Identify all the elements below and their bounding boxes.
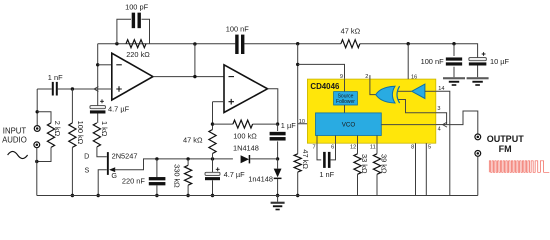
resistor 220 k&#937; (U1 feedback) <box>126 40 146 48</box>
wire U1 minus lead <box>98 64 112 66</box>
node U1 inverting input <box>96 63 99 66</box>
sine symbol <box>8 151 28 158</box>
wire 2k stub <box>37 112 51 123</box>
plus mark 4.7uF #2 <box>216 167 220 171</box>
node 100nF decoupling branch <box>452 42 455 45</box>
capacitor 1 nF (pins 7-6) <box>323 152 330 168</box>
resistor 47 k&#937; (U2 + leg) <box>209 130 216 154</box>
node U2 + feedback node <box>211 122 214 125</box>
wire top feedback/supply rail <box>98 44 478 58</box>
svg-text:VCO: VCO <box>342 122 356 129</box>
wire input coupling <box>37 88 52 90</box>
inverter triangle (signal amp) <box>412 84 425 98</box>
wire U2 plus lead <box>213 102 225 124</box>
resistor 1 k&#937; <box>93 123 100 147</box>
wire 220nF to ground rail <box>156 185 158 195</box>
label 100 nF <box>226 24 249 33</box>
label FM <box>499 144 512 154</box>
wire source lead <box>98 170 107 196</box>
pin 3 label <box>437 106 440 112</box>
capacitor C 100 pF <box>132 13 141 29</box>
wire bottom ground rail <box>37 195 478 197</box>
junction arrow at U1 + node <box>94 87 98 92</box>
label 39 k&#937; <box>380 154 389 174</box>
ground symbol 100nF <box>443 77 465 86</box>
node 47k ground <box>296 194 299 197</box>
resistor 33 k&#937; <box>354 154 361 175</box>
IC U3 CD4046 body <box>307 79 435 143</box>
label 330 k&#937; <box>172 164 181 188</box>
label G <box>111 171 117 180</box>
node diode junction <box>276 157 279 160</box>
wire diode to junction <box>250 158 277 160</box>
label 47 k&#937; <box>341 27 361 36</box>
label 1 uF <box>281 121 296 130</box>
node VCO-input branch <box>296 42 299 45</box>
svg-text:330 kΩ: 330 kΩ <box>172 164 181 188</box>
node main ground <box>276 194 279 197</box>
wire 1k to drain <box>97 147 107 157</box>
wire 1uF to diode net <box>277 141 279 159</box>
node U1 output junction <box>193 75 196 78</box>
label 220 k&#937; <box>126 50 150 59</box>
wire pin12 internal <box>357 136 359 144</box>
svg-text:S: S <box>85 165 90 174</box>
capacitor 220 nF <box>149 177 166 185</box>
pin 8 label <box>411 145 414 151</box>
pin 7 label <box>312 145 315 151</box>
pin 11 label <box>370 145 376 151</box>
node bias divider tap <box>71 87 74 90</box>
terminal output bottom <box>475 151 481 157</box>
svg-text:33 kΩ: 33 kΩ <box>360 154 369 174</box>
svg-text:G: G <box>111 171 117 180</box>
svg-text:2N5247: 2N5247 <box>112 152 138 161</box>
label 1 k&#937; <box>100 121 109 137</box>
label INPUT <box>3 127 27 136</box>
wire 39k to ground <box>376 174 378 195</box>
transistor Q1 2N5247 JFET <box>107 152 115 175</box>
diode D2 1n4148 (vertical) <box>274 169 282 180</box>
wire SF to VCO <box>344 105 346 113</box>
wire pin4 lead <box>436 124 447 126</box>
wire 1uF top lead <box>277 124 279 131</box>
wire 100nF decoupling drop <box>453 44 455 56</box>
wire pin7 lead <box>317 143 321 160</box>
label D <box>84 152 89 161</box>
wire output ground <box>477 157 479 196</box>
node op-amp U1 output to rail <box>193 42 196 45</box>
label 1 nF pins <box>319 170 334 179</box>
terminal input top <box>34 126 40 132</box>
source follower block <box>334 92 358 106</box>
VCO block <box>316 113 382 136</box>
capacitor 4.7 uF electrolytic (U1) <box>90 106 106 114</box>
wire output route <box>447 111 478 134</box>
wire 10uF to ground <box>477 66 479 78</box>
node input divider <box>36 110 39 113</box>
capacitor 100 nF coupling (series in rail) <box>235 35 244 54</box>
resistor 47 k&#937; (to pin 9) <box>341 40 360 48</box>
pin 4 label <box>438 126 441 132</box>
wire 100k bias drop <box>71 89 73 123</box>
svg-text:6: 6 <box>331 145 334 151</box>
svg-text:9: 9 <box>340 74 343 80</box>
pin 9 label <box>340 74 343 80</box>
resistor 39 k&#937; <box>373 154 380 175</box>
node 330k junction <box>186 157 189 160</box>
diode D1 1N4148 <box>241 155 251 163</box>
resistor 330 k&#937; <box>185 165 192 185</box>
label 47 k&#937; rotated <box>301 149 310 169</box>
wire pin3 to pin4 loop <box>436 113 447 125</box>
terminal input bottom <box>34 142 40 148</box>
svg-text:47 kΩ: 47 kΩ <box>301 149 310 169</box>
node pin16 supply branch <box>407 42 410 45</box>
wire 4.7u#2 stub <box>212 159 214 172</box>
pin 2 label <box>365 74 368 80</box>
wire pin2 internal <box>370 79 376 95</box>
wire pin14 to ground <box>436 91 450 195</box>
svg-text:2 kΩ: 2 kΩ <box>53 121 62 137</box>
pin 16 label <box>411 75 417 81</box>
label 4.7 uF #2 <box>224 170 246 179</box>
resistor 2 k&#937; <box>47 123 54 147</box>
svg-text:INPUT: INPUT <box>3 127 27 136</box>
wire pin5 to ground <box>425 143 427 195</box>
wire pin9 internal <box>344 79 346 92</box>
resistor 100 k&#937; (U2 feedback) <box>233 120 253 128</box>
svg-text:4: 4 <box>438 126 441 132</box>
svg-text:100 kΩ: 100 kΩ <box>76 121 85 145</box>
capacitor 10 uF electrolytic <box>469 58 487 66</box>
junction arrow at pin4 <box>443 122 447 127</box>
label 100 pF <box>125 3 148 12</box>
svg-text:1 nF: 1 nF <box>319 170 334 179</box>
svg-text:1 µF: 1 µF <box>281 121 296 130</box>
wire 100nF to ground <box>453 67 455 77</box>
label S <box>85 165 90 174</box>
node input ground junction <box>35 160 38 163</box>
wire pin9 route <box>298 64 345 79</box>
svg-text:39 kΩ: 39 kΩ <box>380 154 389 174</box>
svg-text:2: 2 <box>365 74 368 80</box>
node 220nF junction <box>155 157 158 160</box>
svg-text:7: 7 <box>312 145 315 151</box>
pin 5 label <box>428 145 431 151</box>
wire 220nF stub <box>156 159 158 177</box>
label 1N4148 <box>233 144 259 153</box>
svg-text:47 kΩ: 47 kΩ <box>183 136 203 145</box>
node U2 output junction <box>276 122 279 125</box>
FM output waveform <box>489 161 549 173</box>
op-amp U2 <box>224 65 268 113</box>
node source ground <box>97 194 100 197</box>
wire pin12 lead <box>357 143 359 154</box>
capacitor 100 nF decoupling <box>446 57 462 65</box>
label 1 nF <box>48 73 63 82</box>
svg-text:10 µF: 10 µF <box>490 57 510 66</box>
node 4.7u#2 ground <box>211 194 214 197</box>
svg-text:1 kΩ: 1 kΩ <box>100 121 109 137</box>
wire 100k feedback <box>213 123 278 125</box>
wire 100k to rail <box>71 147 73 195</box>
wire xor top input <box>398 90 412 92</box>
resistor 100 k&#937; (bias) <box>69 123 76 147</box>
svg-text:11: 11 <box>370 145 376 151</box>
wire 47k lower lead <box>212 124 214 159</box>
wire 330k top lead <box>187 159 189 165</box>
label 4.7 uF <box>108 104 130 113</box>
svg-text:1n4148: 1n4148 <box>248 174 273 183</box>
wire 2k bottom return <box>37 147 51 161</box>
wire D2 leads <box>277 159 279 196</box>
wire pin10 lead <box>298 123 316 125</box>
label 100 nF decoupling <box>421 57 444 66</box>
wire pin11 internal <box>376 136 378 144</box>
node 47k/4.7u junction <box>211 157 214 160</box>
svg-text:D: D <box>84 152 89 161</box>
wire U1 output <box>153 44 224 77</box>
wire xor bottom input <box>398 100 435 113</box>
wire pin7 internal <box>316 136 318 144</box>
label 47 k&#937; horizontal <box>183 136 203 145</box>
wire gate lead <box>115 159 233 170</box>
label CD4046 <box>310 82 340 91</box>
svg-text:16: 16 <box>411 75 417 81</box>
ground symbol main <box>271 196 285 211</box>
wire 47k to ground rail <box>297 172 299 195</box>
svg-text:3: 3 <box>437 106 440 112</box>
wire inverter to pin14 <box>425 90 436 92</box>
label 2N5247 <box>112 152 138 161</box>
wire pin2 stub <box>369 75 371 79</box>
plus mark 10uF <box>482 52 486 56</box>
capacitor 1 nF input coupling <box>52 82 58 96</box>
wire pin16 to rail <box>407 44 409 79</box>
terminal output top <box>475 134 481 140</box>
label 100 k&#937; <box>76 121 85 145</box>
node pin9 branch <box>296 63 299 66</box>
label 10 uF <box>490 57 510 66</box>
wire 33k to ground <box>357 174 359 195</box>
svg-text:220 kΩ: 220 kΩ <box>126 50 150 59</box>
node 330k ground <box>186 194 189 197</box>
pin 6 label <box>331 145 334 151</box>
plus mark 4.7uF U1 <box>100 99 104 103</box>
svg-text:220 nF: 220 nF <box>122 176 145 185</box>
wire VCO to pin4 <box>381 124 436 126</box>
pin 12 label <box>350 145 356 151</box>
wire input ground drop <box>36 148 38 196</box>
wire pin11 lead <box>376 143 378 154</box>
wire pin8 to ground <box>415 143 417 195</box>
wire 330k bottom lead <box>187 185 189 195</box>
svg-text:1 nF: 1 nF <box>48 73 63 82</box>
wire 4.7u to 1k <box>97 114 99 123</box>
label 33 k&#937; <box>360 154 369 174</box>
svg-text:CD4046: CD4046 <box>310 82 340 91</box>
wire U1 inverting-input vertical <box>97 44 99 106</box>
wire U1 plus input <box>58 88 112 90</box>
label 100 k&#937; feedback <box>233 132 257 141</box>
label 220 nF <box>122 176 145 185</box>
node op-amp U1 feedback left <box>115 42 118 45</box>
pin 14 label <box>438 86 444 92</box>
svg-text:OUTPUT: OUTPUT <box>487 134 525 144</box>
op-amp U1 <box>112 53 153 100</box>
wire 100 pF loop <box>117 19 150 44</box>
wire pin6 lead <box>331 143 336 160</box>
ground symbol 10uF <box>467 77 489 86</box>
svg-text:8: 8 <box>411 145 414 151</box>
svg-text:10: 10 <box>299 119 305 125</box>
wire pin6 internal <box>335 136 337 144</box>
svg-text:100 kΩ: 100 kΩ <box>233 132 257 141</box>
svg-text:1N4148: 1N4148 <box>233 144 259 153</box>
svg-text:100 nF: 100 nF <box>226 24 249 33</box>
svg-text:47 kΩ: 47 kΩ <box>341 27 361 36</box>
label 1n4148 <box>248 174 273 183</box>
svg-text:FM: FM <box>499 144 512 154</box>
node 100k ground <box>71 194 74 197</box>
wire 4.7u#2 to ground rail <box>212 180 214 195</box>
svg-text:4.7 µF: 4.7 µF <box>108 104 130 113</box>
svg-text:4.7 µF: 4.7 µF <box>224 170 246 179</box>
wire input terminal vertical <box>36 89 38 126</box>
label 2 k&#937; <box>53 121 62 137</box>
label AUDIO <box>2 135 27 144</box>
svg-text:AUDIO: AUDIO <box>2 135 27 144</box>
capacitor 4.7 uF electrolytic #2 <box>205 172 220 180</box>
wire VCO-input vertical <box>297 44 299 154</box>
svg-text:100 pF: 100 pF <box>125 3 148 12</box>
svg-text:Follower: Follower <box>336 99 355 105</box>
wire U2 output <box>268 89 278 124</box>
pin 10 label <box>299 119 305 125</box>
svg-text:100 nF: 100 nF <box>421 57 444 66</box>
node 220nF ground <box>155 194 158 197</box>
resistor 47 k&#937; (pin10 load) <box>294 154 301 172</box>
label OUTPUT <box>487 134 525 144</box>
capacitor 1 uF <box>270 132 286 141</box>
svg-text:12: 12 <box>350 145 356 151</box>
xor gate (phase comparator) <box>376 86 400 103</box>
svg-text:5: 5 <box>428 145 431 151</box>
